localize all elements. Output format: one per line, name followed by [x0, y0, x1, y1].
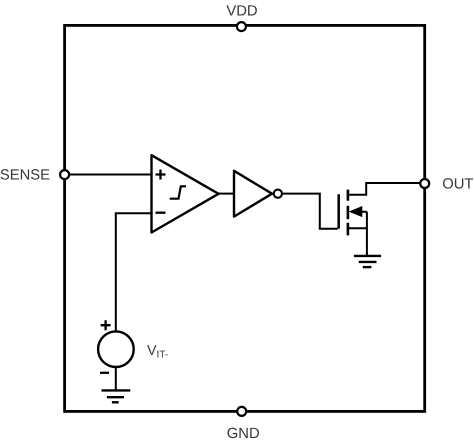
comparator + input marker: [156, 170, 166, 180]
svg-text:OUT: OUT: [442, 176, 473, 192]
ground under MOSFET: [354, 256, 381, 267]
gate bar: [337, 194, 340, 229]
- polarity marker: [100, 372, 109, 374]
terminal OUT: [420, 179, 429, 188]
wire inverter output to MOSFET gate: [283, 194, 338, 229]
svg-text:GND: GND: [227, 426, 260, 440]
wire comparator - input to VIT- source: [116, 213, 152, 331]
hysteresis symbol: [170, 186, 186, 198]
wire VIT- source to ground: [115, 368, 117, 390]
wire SENSE to comparator + input: [65, 174, 152, 176]
comparator U1 triangle: [152, 155, 219, 232]
wire MOSFET drain to OUT: [348, 183, 425, 195]
svg-text:VDD: VDD: [226, 3, 257, 19]
inverter output bubble: [274, 190, 282, 198]
channel segments: [347, 190, 350, 236]
wire comparator output to inverter input: [219, 193, 235, 195]
svg-text:SENSE: SENSE: [0, 168, 50, 184]
+ polarity marker: [101, 320, 111, 330]
inverter U2: [234, 171, 282, 217]
body arrow: [350, 207, 362, 217]
transistor Q1 N-MOSFET: [339, 190, 362, 236]
comparator - input marker: [156, 212, 166, 214]
device boundary box: [65, 25, 425, 411]
voltage source VIT-: [98, 320, 134, 373]
terminal VDD: [237, 22, 246, 31]
wire MOSFET source to ground: [348, 212, 367, 256]
terminal GND: [237, 407, 246, 416]
ground under VIT- source: [102, 390, 131, 402]
terminal SENSE: [60, 170, 69, 179]
